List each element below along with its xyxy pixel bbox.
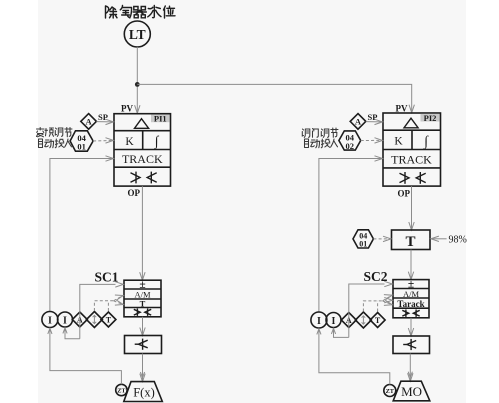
enable hexagon 04/01 right (353, 230, 373, 249)
wire track feedback into PI1 (50, 159, 113, 312)
indicator I1 right (311, 312, 327, 328)
wire T output to SC2 (410, 250, 412, 279)
wire PI1 OP down to SC1 (141, 186, 143, 279)
enable hexagon 04/01 left (70, 131, 93, 152)
svg-text:SC2: SC2 (364, 269, 388, 284)
svg-text:ZT: ZT (117, 387, 126, 394)
svg-text:OP: OP (128, 188, 141, 198)
svg-text:02: 02 (346, 141, 355, 151)
limiter symbols PI2 (400, 172, 426, 184)
svg-text:T: T (405, 234, 415, 250)
pushbutton diamond T right (370, 313, 385, 328)
wire SC2 output to rate limiter right (410, 318, 412, 336)
dashed wire hexagon into T (373, 238, 389, 240)
arrow into PI1 PV (135, 105, 140, 113)
PI2 tag (421, 113, 440, 123)
wire SP into PI1 (96, 121, 112, 123)
wire LT down to PI1 PV (136, 47, 138, 113)
pushbutton diamond raise/lower left (86, 312, 102, 328)
svg-text:LT: LT (129, 27, 146, 42)
SC1 limiter row (134, 309, 151, 316)
wire track feedback into PI2 (319, 159, 382, 312)
node junction dot (135, 82, 140, 87)
drive MO (393, 381, 430, 401)
wire rate limiter to MO (409, 354, 411, 381)
svg-text:T: T (140, 298, 146, 308)
delta symbol PI1 (135, 119, 149, 129)
dashed fan arrows into SC1 (114, 296, 123, 301)
svg-text:T: T (375, 316, 381, 325)
svg-text:TRACK: TRACK (122, 152, 163, 166)
svg-text:PV: PV (121, 103, 133, 113)
transfer block T (392, 230, 431, 250)
pushbutton diamond T left (101, 312, 116, 327)
svg-text:I: I (317, 316, 321, 327)
svg-text:PI2: PI2 (424, 113, 437, 123)
delta symbol PI2 (404, 118, 418, 128)
setpoint diamond A right (350, 114, 366, 130)
position transmitter ZT left (116, 384, 127, 395)
M/A station SC1 (124, 280, 161, 317)
svg-text:01: 01 (359, 240, 367, 249)
enable hexagon 04/02 right (339, 131, 361, 151)
label 变频调节/自动投入 fake CJK (37, 128, 73, 148)
arrow into PI2 PV (409, 105, 414, 113)
dashed T pushbutton feed SC1 (107, 301, 109, 311)
label 调门调节/自动投入 fake CJK (302, 128, 338, 148)
svg-text:K: K (394, 136, 403, 148)
function generator F(x) (124, 382, 163, 402)
wire 98% into T (432, 238, 447, 240)
wire SP into PI2 (366, 121, 382, 123)
indicator I1 left (42, 312, 58, 328)
setpoint diamond A left (81, 114, 97, 130)
indicator I2 left (58, 312, 73, 327)
wire junction to right branch (137, 84, 411, 112)
svg-text:98%: 98% (449, 234, 467, 245)
svg-text:F(x): F(x) (133, 385, 155, 399)
title 除氧器水位 (deaerator water level) fake CJK strokes (106, 6, 176, 19)
svg-text:TRACK: TRACK (391, 152, 432, 166)
pushbutton diamond A left (72, 312, 87, 327)
dashed raise/lower feed SC1 (94, 301, 113, 311)
indicator I2 right (326, 313, 341, 328)
wire bias feed into SC2 (349, 284, 385, 337)
svg-text:PV: PV (396, 103, 408, 113)
svg-text:SP: SP (98, 112, 108, 122)
wire PI2 OP down to T block (411, 186, 413, 229)
position transmitter ZT right (384, 385, 396, 397)
wire to indicator I2 right (334, 329, 349, 337)
svg-text:A/M: A/M (403, 289, 420, 299)
PI1 tag (151, 114, 170, 124)
rate limiter block left (125, 336, 162, 354)
svg-text:Tarack: Tarack (397, 299, 424, 309)
svg-text:A: A (355, 117, 362, 127)
controller PI2 block (383, 113, 441, 186)
svg-text:T: T (106, 316, 112, 325)
svg-text:A: A (86, 117, 93, 127)
wire to indicator I2 left (65, 329, 80, 339)
dashed wire hexagon into PI2 K (361, 139, 381, 141)
svg-text:SC1: SC1 (95, 269, 119, 284)
wire rate limiter to F(x) (142, 354, 144, 381)
wire bias feed into SC1 (80, 284, 116, 338)
pushbutton diamond A right (341, 313, 356, 328)
level transmitter LT (124, 21, 150, 47)
svg-text:K: K (125, 136, 134, 148)
svg-text:I: I (48, 315, 52, 326)
dashed raise/lower feed SC2 (363, 301, 382, 312)
dashed wire hexagon into PI1 K (93, 140, 112, 143)
dashed T pushbutton feed SC2 (377, 301, 379, 312)
svg-text:PI1: PI1 (154, 114, 167, 124)
rate limiter block right (393, 336, 430, 354)
wire SC1 output to rate limiter (142, 317, 144, 335)
SC2 limiter row (402, 310, 419, 317)
wire ZT right feedback (319, 330, 390, 385)
svg-text:SP: SP (368, 112, 378, 122)
limiter symbols PI1 (131, 172, 157, 184)
svg-text:ZT: ZT (386, 388, 395, 395)
svg-text:OP: OP (398, 188, 411, 198)
svg-text:I: I (63, 315, 67, 326)
svg-text:MO: MO (401, 384, 422, 399)
svg-text:I: I (332, 316, 336, 327)
pushbutton diamond raise/lower right (355, 312, 371, 328)
dashed fan arrows into SC2 (383, 296, 392, 301)
controller PI1 block (114, 114, 171, 186)
M/A station SC2 (393, 280, 429, 318)
wire ZT left feedback (50, 329, 122, 384)
svg-text:01: 01 (77, 142, 86, 152)
